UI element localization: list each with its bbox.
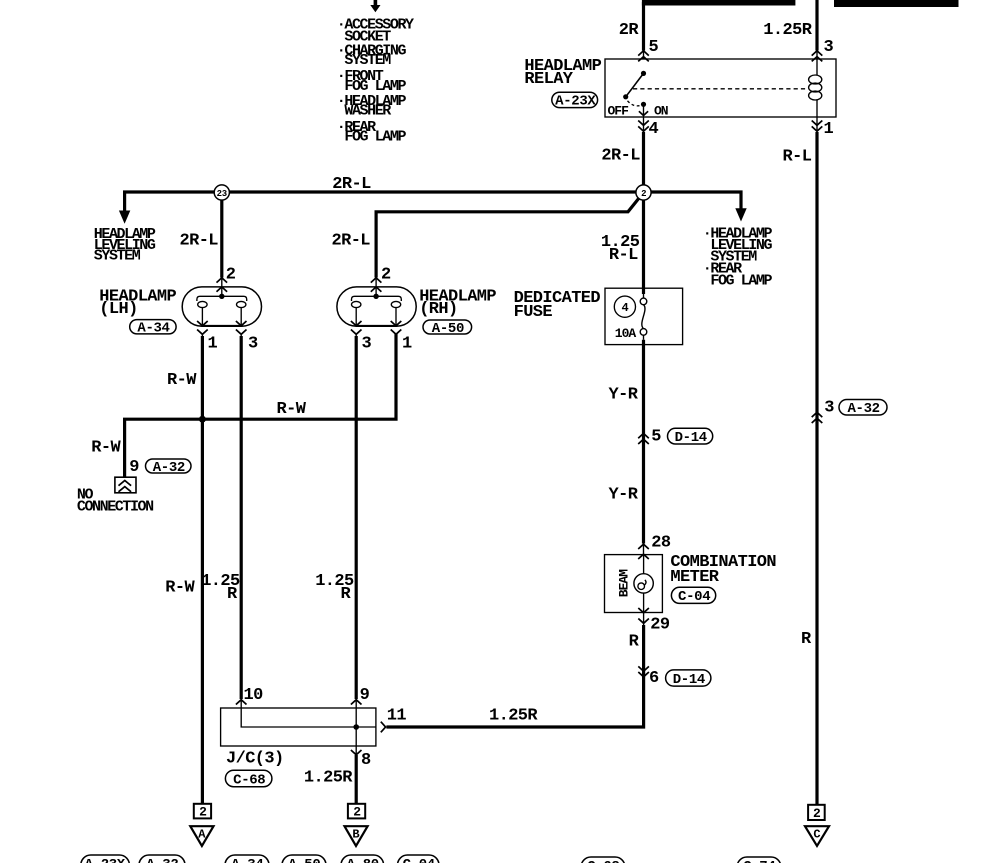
svg-text:3: 3 xyxy=(248,335,258,354)
svg-text:2: 2 xyxy=(353,805,361,820)
wire R-L from relay pin 1 xyxy=(816,117,818,132)
svg-text:23: 23 xyxy=(217,189,227,199)
connector row: A-50 xyxy=(282,855,326,863)
svg-text:4: 4 xyxy=(622,301,629,315)
relay coil xyxy=(809,59,822,117)
svg-text:10: 10 xyxy=(244,686,264,705)
wire 1.25R-L from junction 2 to fuse xyxy=(642,200,645,294)
svg-text:2: 2 xyxy=(813,806,821,821)
wire 2R-L to headlamp LH pin 2 xyxy=(220,200,223,277)
relay switch xyxy=(623,71,648,117)
terminal 2 box C xyxy=(808,805,825,820)
connector pass D-14 pin 6 xyxy=(638,666,649,671)
wire 2R-L from relay pin 4 xyxy=(643,117,645,132)
svg-text:1.25R: 1.25R xyxy=(304,769,353,788)
svg-text:A-32: A-32 xyxy=(153,460,185,476)
ground triangle B xyxy=(345,826,368,846)
fuse number circle 4 xyxy=(614,296,635,317)
junction 23 xyxy=(214,185,229,200)
headlamp leveling / rear fog list (right) xyxy=(703,225,773,289)
terminal 2 box B xyxy=(348,804,365,819)
relay dashed link xyxy=(633,88,807,90)
svg-text:3: 3 xyxy=(362,335,372,354)
svg-text:A-34: A-34 xyxy=(137,321,169,337)
svg-text:11: 11 xyxy=(387,707,407,726)
svg-text:2: 2 xyxy=(199,805,207,820)
junction 2 xyxy=(636,185,651,200)
svg-text:A-23X: A-23X xyxy=(85,857,126,863)
bus bar (battery feed, left) xyxy=(642,0,796,6)
connector row: C-68 xyxy=(581,857,625,863)
svg-text:RELAY: RELAY xyxy=(524,70,573,89)
svg-text:5: 5 xyxy=(649,38,659,57)
svg-text:2: 2 xyxy=(641,189,646,199)
svg-text:SYSTEM: SYSTEM xyxy=(344,52,391,69)
arrow to headlamp leveling system (left) xyxy=(119,211,130,224)
svg-text:2R-L: 2R-L xyxy=(180,232,219,251)
svg-text:2: 2 xyxy=(226,266,236,285)
svg-text:OFF: OFF xyxy=(608,103,630,118)
svg-text:1.25R: 1.25R xyxy=(763,21,812,40)
arrow to headlamp leveling system / rear fog lamp (right) xyxy=(735,208,746,221)
svg-text:SYSTEM: SYSTEM xyxy=(94,247,141,264)
no-connection terminal xyxy=(115,477,136,493)
svg-text:9: 9 xyxy=(129,458,139,477)
ground triangle A xyxy=(190,826,213,846)
svg-text:A-50: A-50 xyxy=(288,857,320,863)
svg-text:R-L: R-L xyxy=(609,246,638,265)
wire Y-R from fuse to meter pin 28 xyxy=(642,340,645,544)
svg-text:1.25R: 1.25R xyxy=(489,706,538,725)
dedicated fuse box xyxy=(605,288,683,344)
wire R-W from LH pin 1 to terminal A xyxy=(201,334,203,337)
wire R from meter pin 29 to J/C pin 11 xyxy=(643,613,645,627)
joint connector J/C(3) box xyxy=(221,708,376,746)
connector row: A-32 xyxy=(139,855,185,863)
svg-text:D-14: D-14 xyxy=(673,672,705,688)
svg-text:R: R xyxy=(629,632,640,651)
headlamp LH body xyxy=(182,287,261,326)
connector C-04 xyxy=(671,587,715,603)
connector A-23X xyxy=(552,92,598,107)
wire 1.25R to relay pin 3 xyxy=(815,0,818,51)
connector row: A-34 xyxy=(225,855,269,863)
connector row: A-80 xyxy=(341,855,384,863)
svg-text:A-23X: A-23X xyxy=(555,94,596,110)
headlamp relay A-23X box xyxy=(605,59,836,117)
J/C internal junction dot xyxy=(353,724,359,730)
svg-text:A-32: A-32 xyxy=(848,401,880,417)
terminal 2 box A xyxy=(194,804,211,819)
connector C-68 xyxy=(225,770,272,787)
svg-text:METER: METER xyxy=(670,568,719,587)
svg-text:FOG LAMP: FOG LAMP xyxy=(344,129,406,146)
svg-text:(LH): (LH) xyxy=(99,300,137,319)
ground triangle C xyxy=(805,826,829,846)
svg-text:3: 3 xyxy=(824,38,834,57)
svg-text:R: R xyxy=(341,585,352,604)
svg-text:5: 5 xyxy=(651,428,661,447)
svg-text:1: 1 xyxy=(824,120,834,139)
branch from junction 2 to right arrow xyxy=(651,192,741,209)
wire 1.25R from J/C pin 8 to terminal B xyxy=(355,746,357,756)
svg-text:10A: 10A xyxy=(615,326,637,341)
svg-text:WASHER: WASHER xyxy=(344,103,391,120)
svg-text:1: 1 xyxy=(402,335,412,354)
svg-text:R: R xyxy=(227,585,238,604)
combination meter box xyxy=(605,555,663,613)
svg-text:C-68: C-68 xyxy=(233,772,265,788)
svg-text:2: 2 xyxy=(381,266,391,285)
headlamp leveling system text (left) xyxy=(94,226,156,264)
svg-text:4: 4 xyxy=(649,120,659,139)
headlamp LH bulb xyxy=(197,294,247,326)
svg-text:Y-R: Y-R xyxy=(609,485,639,504)
connector row: C-74 xyxy=(737,857,781,863)
label 1.25 R (RH) xyxy=(315,572,354,604)
wire 2R-L rail xyxy=(125,192,215,211)
junction dot R-W xyxy=(199,416,206,423)
svg-text:R: R xyxy=(801,630,812,649)
svg-text:28: 28 xyxy=(651,534,671,553)
wire 1.25R from RH pin 3 to J/C pin 9 xyxy=(355,334,357,708)
svg-text:R-W: R-W xyxy=(277,400,307,419)
svg-text:A-34: A-34 xyxy=(231,857,263,863)
label 1.25 R-L xyxy=(601,233,640,265)
bus bar (battery feed, right) xyxy=(834,0,959,7)
svg-text:6: 6 xyxy=(649,669,659,688)
svg-text:2R-L: 2R-L xyxy=(332,175,371,194)
fuse element xyxy=(640,294,647,340)
svg-text:A-80: A-80 xyxy=(347,857,379,863)
svg-text:FUSE: FUSE xyxy=(514,303,553,322)
wire R-W horizontal with no-connection drop xyxy=(125,334,396,477)
svg-text:8: 8 xyxy=(361,751,371,770)
svg-text:C-68: C-68 xyxy=(587,859,619,863)
svg-text:1: 1 xyxy=(208,335,218,354)
label 1.25 R (LH) xyxy=(201,572,240,604)
svg-text:ON: ON xyxy=(654,103,668,118)
wire 1.25R from LH pin 3 to J/C pin 10 xyxy=(240,334,242,708)
connector pass D-14 pin 5 xyxy=(638,433,649,438)
J/C internal bus xyxy=(241,708,376,746)
headlamp RH body xyxy=(337,287,416,326)
meter name xyxy=(670,553,776,587)
svg-text:J/C(3): J/C(3) xyxy=(226,750,284,769)
connector row: C-04 xyxy=(398,855,440,863)
svg-text:R-L: R-L xyxy=(783,148,812,167)
svg-text:R-W: R-W xyxy=(165,579,195,598)
svg-text:CONNECTION: CONNECTION xyxy=(77,498,154,515)
connector A-50 xyxy=(423,320,472,334)
node list: accessory socket / charging system / front fog lamp / headlamp washer / rear fog lamp xyxy=(337,16,414,145)
svg-text:29: 29 xyxy=(650,615,670,634)
svg-text:3: 3 xyxy=(824,399,834,418)
wire 2R-L to headlamp RH pin 2 xyxy=(376,196,641,278)
svg-text:B: B xyxy=(352,828,359,842)
wire 2R to relay pin 5 xyxy=(642,2,645,51)
connector row: A-23X xyxy=(81,855,130,863)
svg-text:C-74: C-74 xyxy=(743,859,775,863)
svg-text:A-32: A-32 xyxy=(146,857,178,863)
svg-text:C: C xyxy=(813,828,820,842)
svg-text:2R: 2R xyxy=(619,21,640,40)
svg-text:(RH): (RH) xyxy=(419,300,457,319)
svg-text:2R-L: 2R-L xyxy=(601,147,640,166)
headlamp RH bulb xyxy=(352,294,402,326)
svg-text:R-W: R-W xyxy=(91,439,121,458)
connector A-34 xyxy=(130,320,176,334)
svg-text:R-W: R-W xyxy=(167,371,197,390)
svg-text:FOG LAMP: FOG LAMP xyxy=(710,272,772,289)
beam indicator lamp xyxy=(634,555,653,613)
svg-text:C-04: C-04 xyxy=(678,589,710,605)
fuse name xyxy=(514,289,601,322)
svg-text:BEAM: BEAM xyxy=(617,569,632,597)
arrow to accessory-socket feed list xyxy=(370,0,380,12)
svg-text:C-04: C-04 xyxy=(403,857,435,863)
svg-text:Y-R: Y-R xyxy=(609,385,639,404)
svg-text:2R-L: 2R-L xyxy=(332,232,371,251)
svg-text:D-14: D-14 xyxy=(675,430,707,446)
svg-text:9: 9 xyxy=(360,686,370,705)
connector A-32 (no connection) xyxy=(146,459,192,473)
svg-text:A-50: A-50 xyxy=(432,321,464,337)
no connection text xyxy=(77,486,154,515)
connector pass A-32 pin 3 xyxy=(812,412,823,417)
